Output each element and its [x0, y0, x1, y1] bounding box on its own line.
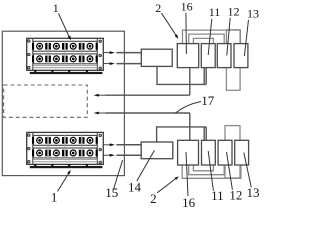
arrow line into dashed box (from top assembly) [94, 94, 190, 97]
svg-text:2: 2 [150, 191, 157, 206]
svg-text:13: 13 [247, 185, 260, 200]
svg-text:17: 17 [201, 93, 215, 108]
box 13 top [234, 44, 248, 68]
box 11 bottom [202, 140, 216, 165]
wire from box 14 top down and right to leg [157, 66, 206, 84]
bottom assembly shells 2 [182, 126, 241, 179]
wire from box 16 top down to node [189, 68, 191, 96]
svg-text:1: 1 [53, 1, 59, 15]
svg-text:16: 16 [182, 195, 196, 208]
box 12 bottom [218, 140, 232, 165]
svg-text:16: 16 [181, 0, 193, 13]
wire from box 14 bottom up and right to leg [157, 127, 207, 142]
box 12 top [217, 44, 231, 68]
battery module 1 (top) [27, 38, 104, 74]
arrow line into dashed box (from bottom assembly) [94, 112, 190, 115]
svg-text:14: 14 [128, 180, 142, 195]
box 13 bottom [235, 140, 249, 165]
svg-text:1: 1 [51, 189, 58, 204]
box 16 bottom [178, 140, 199, 165]
svg-text:11: 11 [209, 5, 221, 19]
box 11 top [201, 44, 215, 68]
box 14 top [141, 49, 172, 66]
svg-text:2: 2 [155, 1, 161, 15]
box 16 top [177, 44, 198, 68]
svg-text:12: 12 [229, 187, 242, 202]
wire from box 16 bottom up to node [189, 113, 191, 140]
svg-text:15: 15 [105, 185, 118, 200]
svg-text:13: 13 [247, 7, 259, 21]
arrows from module to 14 (top) [103, 51, 141, 65]
dashed compartment [4, 85, 88, 117]
arrows from module to 14 (bottom) [103, 143, 141, 156]
cabinet wall panel 15 [2, 31, 124, 175]
top assembly shells 2 [183, 30, 241, 91]
svg-text:12: 12 [228, 5, 240, 19]
double leg over box 11 bottom [204, 127, 206, 140]
double leg under box 11 top [204, 68, 206, 85]
battery module 1 (bottom) [27, 132, 104, 168]
box 14 bottom [141, 142, 173, 159]
